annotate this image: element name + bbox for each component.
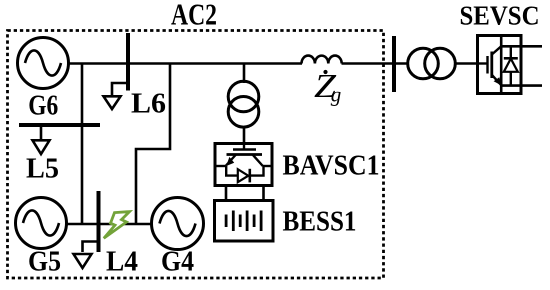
load L5 feeder wire [40, 125, 43, 140]
BAVSC1 IGBT body bar [227, 153, 263, 156]
BESS1 battery cells [226, 211, 261, 232]
BAVSC1 collector rail [263, 165, 272, 167]
BAVSC1 IGBT gate lead [243, 144, 245, 150]
bus bar at PCC [392, 36, 396, 92]
SEVSC IGBT emitter (arrow) [492, 75, 502, 86]
SEVSC DC+ rail and stub [501, 45, 542, 48]
generator G6 [18, 38, 69, 89]
SEVSC DC- rail and stub [501, 84, 542, 87]
BAVSC1 diode D1 [238, 169, 249, 182]
svg-text:SEVSC: SEVSC [460, 1, 540, 31]
generator G4 [152, 198, 204, 250]
wire: G5 to G4 through bus B4 [66, 223, 152, 226]
generator G5 [16, 198, 67, 249]
svg-text:BAVSC1: BAVSC1 [283, 150, 380, 182]
bus bar B4 (L4 bus) [97, 191, 101, 252]
BAVSC1 emitter rail [215, 165, 226, 167]
SEVSC IGBT gate bar [486, 56, 488, 74]
SEVSC IGBT body bar [490, 52, 493, 79]
wire: transformer T1 to BAVSC1 [243, 127, 246, 144]
load L5 arrow [33, 140, 50, 154]
load L6 feeder wire [112, 83, 128, 96]
fault lightning bolt at bus B4 [104, 212, 130, 239]
BAVSC1 IGBT gate bar [233, 148, 256, 150]
converter BAVSC1 box [215, 144, 272, 186]
svg-text:g: g [331, 83, 342, 107]
load L6 arrow [104, 96, 121, 109]
bus bar B6 (L6 bus) [126, 33, 130, 91]
SEVSC IGBT gate lead [478, 62, 488, 64]
value label Zg [314, 68, 341, 107]
wire: BAVSC1 to BESS1 (right leg) [262, 186, 265, 202]
transformer T2 (two windings) [408, 48, 456, 79]
SEVSC diode D2 [504, 46, 518, 85]
BAVSC1 IGBT collector [253, 155, 263, 167]
load L4 arrow [74, 254, 92, 268]
svg-text:L5: L5 [26, 153, 59, 185]
wire: inductor to PCC bus [342, 62, 410, 65]
svg-text:G6: G6 [28, 90, 58, 122]
BAVSC1 IGBT emitter (arrow) [226, 155, 236, 166]
wire: main AC bus line from G6 to right transformer [67, 62, 302, 65]
SEVSC IGBT collector [492, 46, 501, 54]
BAVSC1 antiparallel diode loop [226, 166, 263, 176]
load L4 feeder wire [83, 242, 99, 253]
SEVSC phase leg [500, 36, 503, 94]
svg-text:BESS1: BESS1 [283, 206, 357, 238]
svg-text:AC2: AC2 [171, 0, 217, 32]
transformer T1 (two windings) [228, 81, 259, 127]
svg-text:L6: L6 [131, 88, 166, 120]
dashed area boundary AC2 [8, 31, 384, 279]
wire: main bus to transformer T1 [243, 64, 246, 84]
wire: right transformer to SEVSC box [454, 62, 478, 65]
bus bar B5 (L5 bus) [19, 123, 100, 127]
wire: main bus down-left to G4 node [136, 64, 170, 225]
svg-text:G5: G5 [28, 246, 61, 278]
wire: BAVSC1 to BESS1 (left leg) [225, 186, 228, 202]
converter SEVSC box [478, 36, 522, 94]
svg-text:G4: G4 [161, 246, 194, 278]
wire: main bus down to L5 bus and G5 bus [81, 64, 84, 225]
inductor Zg [302, 56, 342, 64]
battery BESS1 box [215, 201, 274, 242]
svg-text:L4: L4 [106, 246, 138, 278]
